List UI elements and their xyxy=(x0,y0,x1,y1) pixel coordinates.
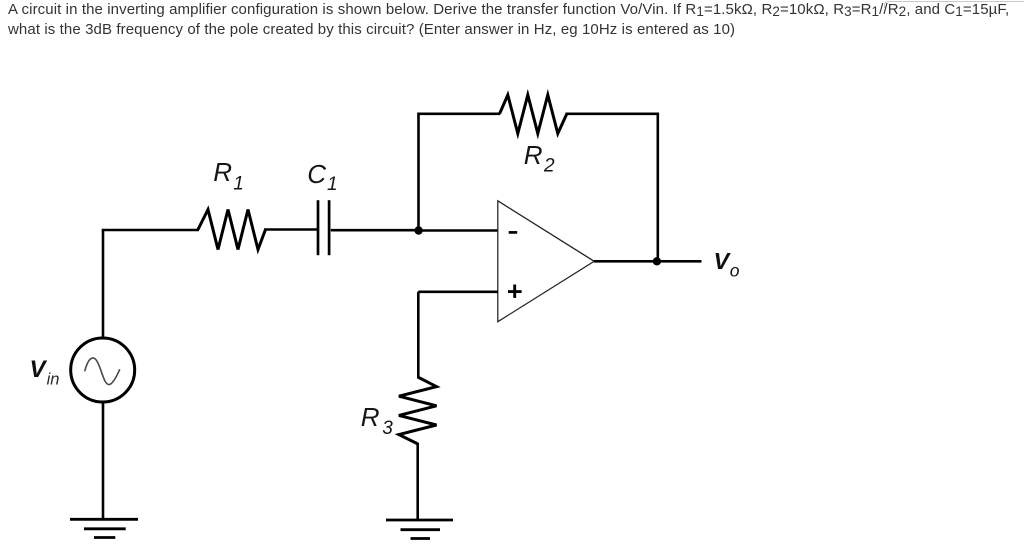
wire: source top vertical xyxy=(102,230,105,339)
op-amp U1 xyxy=(498,201,594,322)
wire: feedback right vertical down to output node xyxy=(656,114,659,261)
node A junction dot xyxy=(414,226,422,234)
resistor R3 xyxy=(399,377,437,444)
wire: R3 to ground xyxy=(416,443,419,520)
svg-text:1: 1 xyxy=(327,174,338,195)
wire: R2 to right corner xyxy=(566,113,660,116)
svg-text:o: o xyxy=(730,261,740,281)
op-amp minus sign xyxy=(509,231,518,234)
wire: C1 to node A xyxy=(331,229,419,232)
wire: R1 to C1 xyxy=(264,228,317,231)
top-right rounded box edge xyxy=(884,1,1024,8)
svg-text:R: R xyxy=(524,140,543,170)
wire: node A up to feedback xyxy=(417,114,420,231)
source sine wave xyxy=(85,358,120,385)
wire: op-amp output xyxy=(594,260,702,263)
svg-text:2: 2 xyxy=(543,156,555,177)
voltage source Vin xyxy=(71,338,135,402)
wire: non-inverting input horizontal xyxy=(418,290,498,293)
svg-text:in: in xyxy=(47,371,60,389)
svg-text:R: R xyxy=(361,402,380,432)
ground (right, under R3) xyxy=(386,519,453,522)
wire: source bottom to ground xyxy=(102,401,105,520)
svg-text:C: C xyxy=(307,159,326,189)
resistor R1 xyxy=(198,210,266,250)
question text xyxy=(8,0,1009,40)
wire: feedback top left horizontal xyxy=(417,113,500,116)
wire: down to R3 xyxy=(417,292,420,378)
svg-text:1: 1 xyxy=(233,174,244,195)
svg-text:V: V xyxy=(714,248,732,274)
op-amp plus sign xyxy=(508,290,522,293)
wire: input horizontal to R1 xyxy=(102,229,199,232)
wire: node A to op-amp inverting input xyxy=(419,229,498,232)
resistor R2 xyxy=(500,95,567,134)
svg-text:3: 3 xyxy=(382,418,393,439)
node B output junction dot xyxy=(653,257,661,265)
svg-text:R: R xyxy=(213,157,232,187)
svg-text:V: V xyxy=(30,356,48,383)
capacitor C1 xyxy=(317,200,320,255)
ground (left, under source) xyxy=(70,518,138,521)
